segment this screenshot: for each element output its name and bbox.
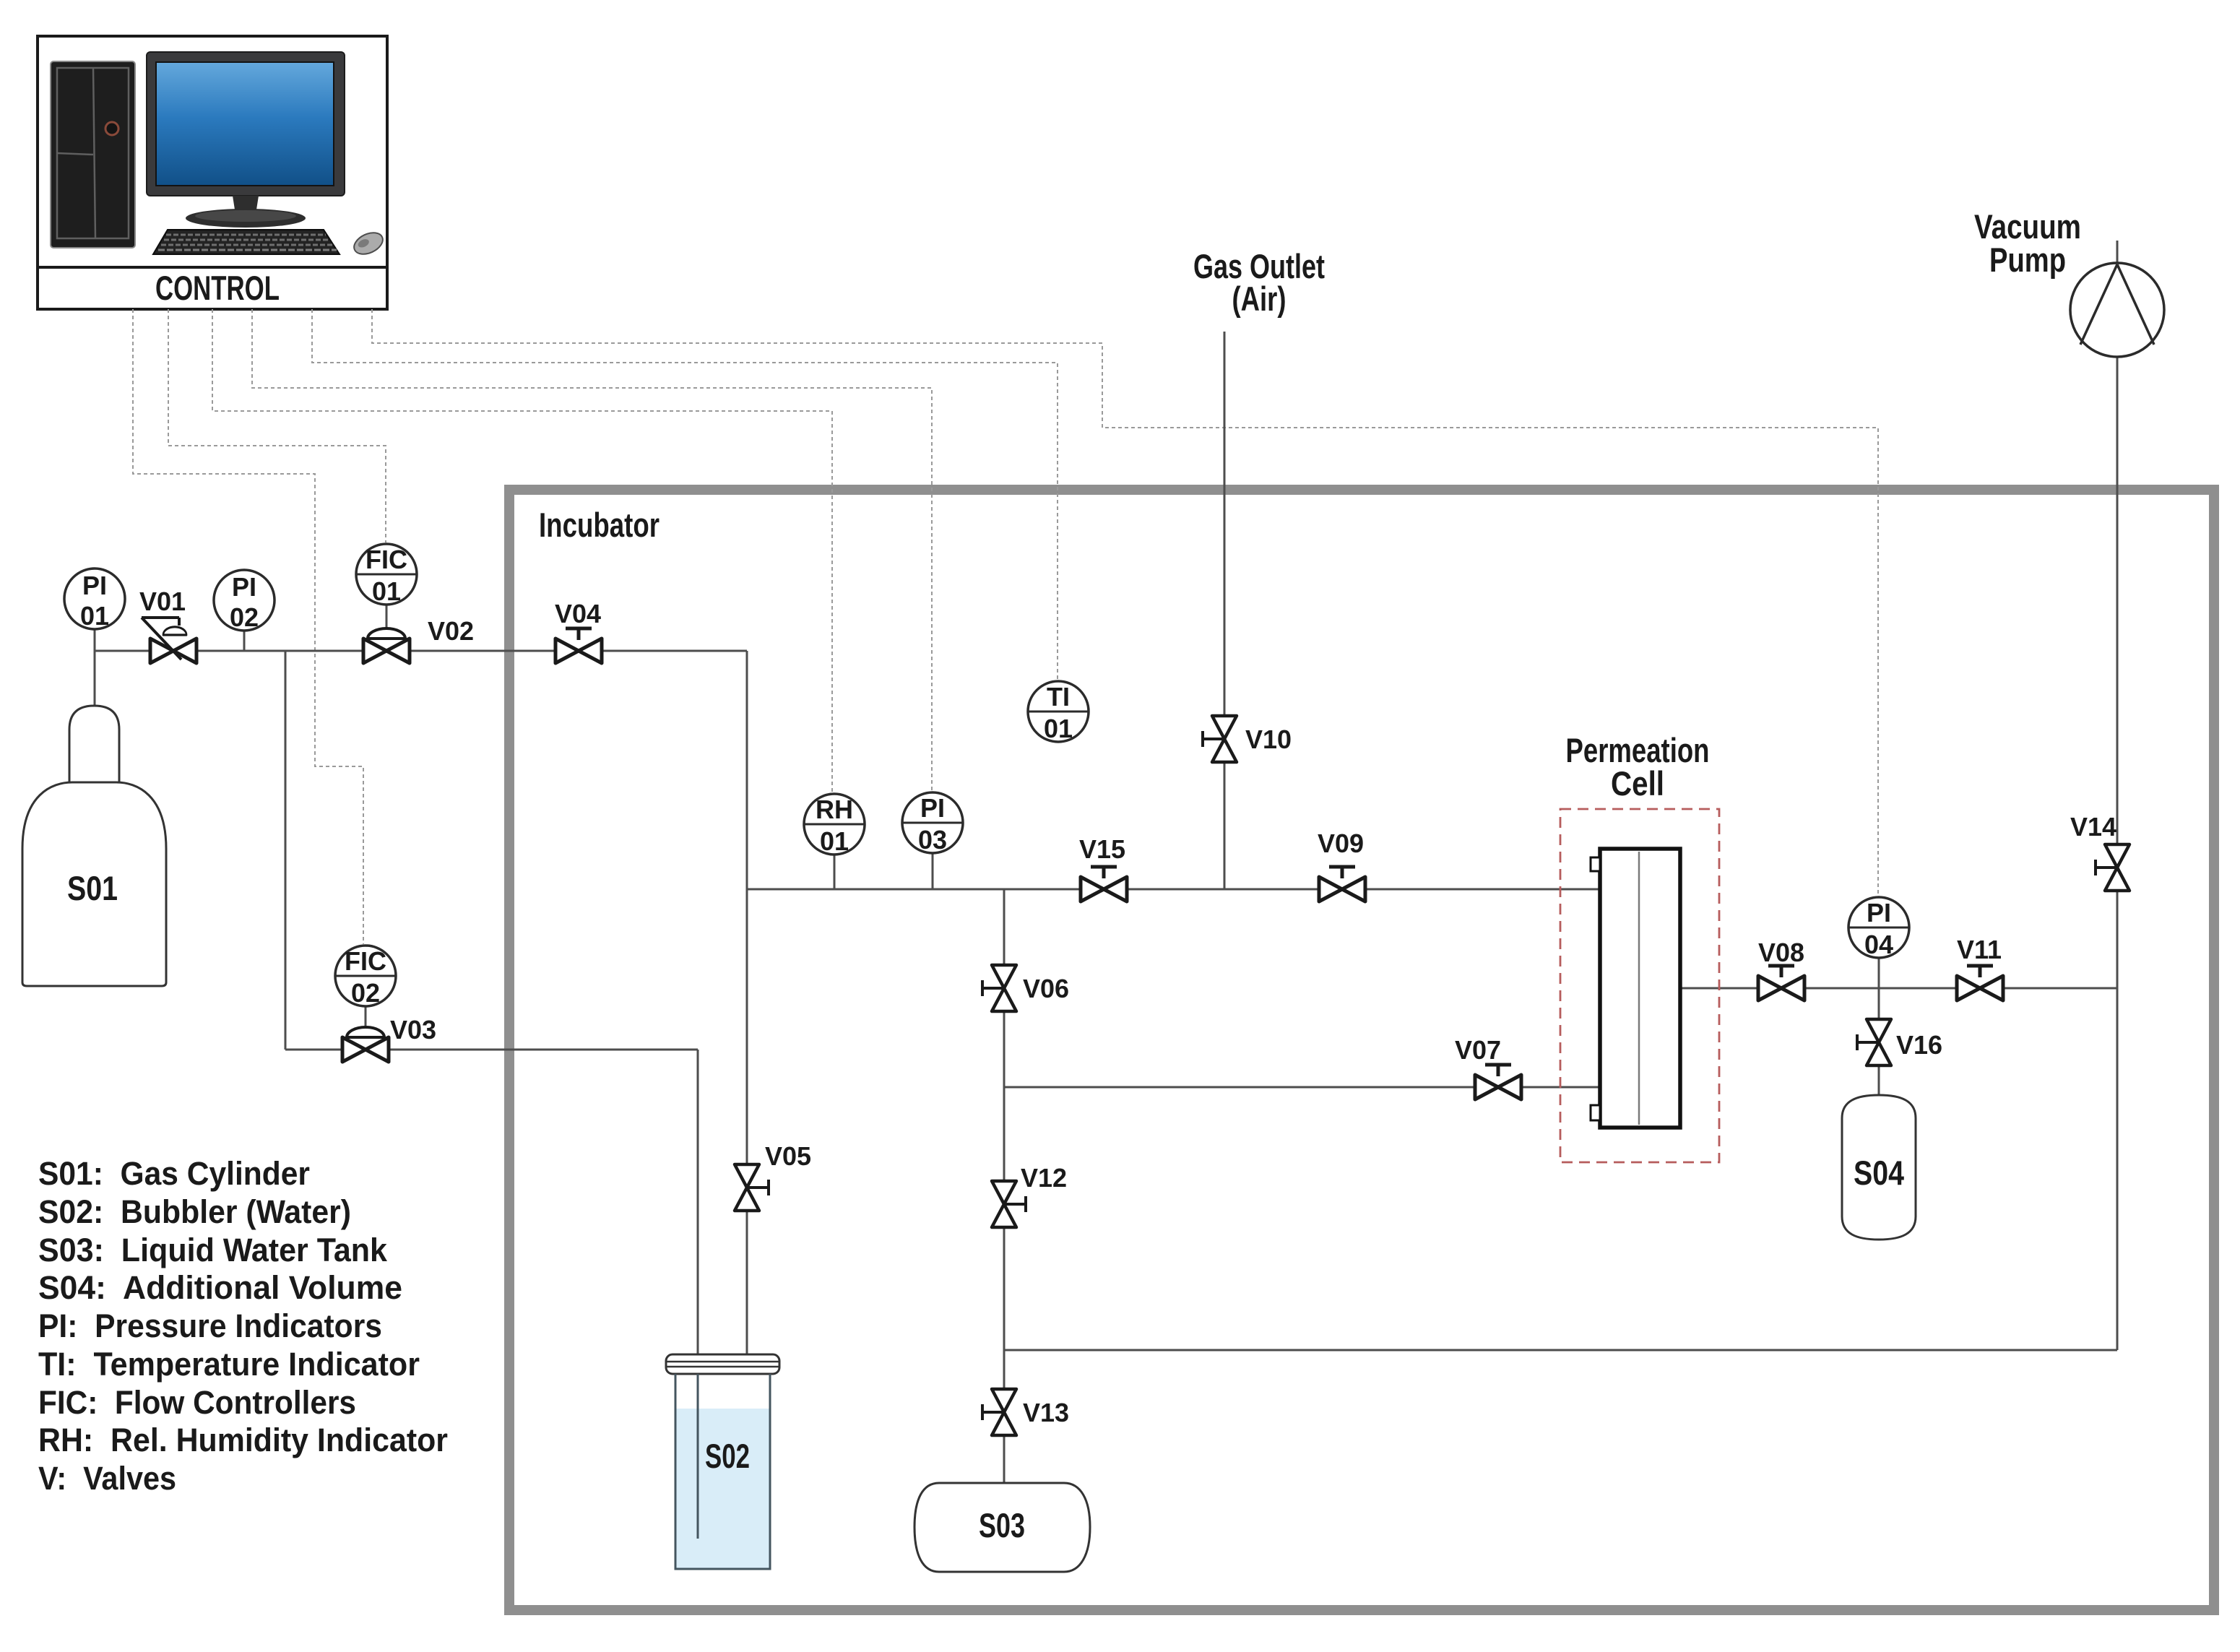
svg-text:01: 01: [80, 601, 109, 631]
legend: [38, 1155, 448, 1497]
svg-text:RH: RH: [816, 795, 853, 824]
permeation cell dashed boundary: [1560, 809, 1719, 1162]
svg-text:Cell: Cell: [1611, 764, 1664, 803]
pressure indicator PI02: [214, 570, 274, 632]
svg-text:V01: V01: [139, 587, 186, 616]
valve V12: [992, 1163, 1067, 1227]
wire main supply line: [95, 650, 747, 652]
permeation cell body: [1591, 849, 1680, 1128]
wire FIC02 to V03: [365, 1006, 367, 1037]
water tank S03: [914, 1483, 1090, 1572]
svg-text:S04: Additional Volume: S04: Additional Volume: [38, 1269, 402, 1306]
svg-text:S04: S04: [1854, 1154, 1904, 1192]
pressure indicator PI04: [1848, 897, 1909, 959]
temperature indicator TI01: [1028, 681, 1089, 743]
wire PI03 stem: [932, 853, 934, 889]
wire bottom line to vacuum: [1004, 1349, 2117, 1352]
control valve V02: [363, 616, 474, 663]
control valve V03: [342, 1015, 436, 1062]
svg-text:PI: PI: [232, 572, 256, 602]
svg-text:Pump: Pump: [1989, 241, 2066, 279]
svg-text:S03: Liquid Water Tank: S03: Liquid Water Tank: [38, 1232, 388, 1268]
svg-text:FIC: FIC: [345, 946, 386, 976]
svg-text:PI: PI: [82, 571, 107, 600]
monitor: [147, 52, 345, 228]
svg-text:V05: V05: [765, 1141, 811, 1171]
wire V04 line down to bubbler: [746, 651, 748, 1354]
control signal line to TI01: [312, 309, 1058, 680]
svg-text:01: 01: [1044, 714, 1073, 743]
valve V01 (regulator): [139, 587, 196, 663]
svg-text:CONTROL: CONTROL: [155, 269, 280, 307]
wire V16 to S04: [1878, 988, 1880, 1095]
wire incubator manifold: [747, 888, 1600, 891]
svg-text:TI: Temperature Indicator: TI: Temperature Indicator: [38, 1346, 420, 1383]
computer tower: [51, 61, 135, 248]
bubbler S02: [666, 1354, 779, 1569]
svg-text:02: 02: [230, 602, 259, 632]
valve V07: [1455, 1035, 1521, 1099]
valve V09: [1318, 829, 1365, 901]
svg-text:V10: V10: [1245, 725, 1292, 754]
svg-text:V: Valves: V: Valves: [38, 1460, 176, 1497]
wire V03 bypass line: [285, 1049, 698, 1051]
svg-text:(Air): (Air): [1232, 280, 1287, 318]
pressure indicator PI03: [902, 792, 963, 855]
wire branch down to V03 line: [285, 651, 287, 1050]
svg-text:V08: V08: [1758, 938, 1804, 967]
valve V08: [1758, 938, 1804, 1000]
svg-text:V12: V12: [1021, 1163, 1067, 1193]
humidity indicator RH01: [804, 794, 865, 856]
svg-text:02: 02: [351, 978, 380, 1008]
gas cylinder S01: [22, 706, 166, 986]
valve V06: [982, 965, 1069, 1011]
incubator enclosure: [509, 490, 2214, 1610]
wire vacuum line: [2116, 357, 2119, 1350]
wire branch V06-V12-V13 to S03: [1003, 889, 1006, 1483]
svg-text:01: 01: [820, 826, 849, 856]
wire PI02 stem: [243, 631, 246, 651]
wire permeate line V08-V11: [1680, 987, 2117, 990]
wire PI04 stem: [1878, 958, 1880, 988]
svg-text:V09: V09: [1318, 829, 1364, 858]
permeation cell label: [1566, 731, 1710, 803]
control box divider: [38, 266, 387, 269]
keyboard: [153, 230, 340, 254]
valve V13: [982, 1389, 1069, 1435]
control signal line to RH01: [212, 309, 832, 792]
svg-text:V03: V03: [390, 1015, 436, 1045]
svg-text:TI: TI: [1047, 682, 1070, 712]
svg-text:PI: Pressure Indicators: PI: Pressure Indicators: [38, 1307, 382, 1344]
valve V10: [1203, 716, 1292, 762]
valve V15: [1079, 834, 1127, 901]
svg-text:V16: V16: [1896, 1030, 1942, 1060]
valve V16: [1857, 1019, 1942, 1065]
svg-text:Incubator: Incubator: [539, 506, 660, 544]
svg-text:V02: V02: [428, 616, 474, 646]
svg-text:RH: Rel. Humidity Indicator: RH: Rel. Humidity Indicator: [38, 1422, 448, 1458]
flow controller FIC02: [335, 946, 396, 1008]
svg-text:V04: V04: [555, 599, 601, 628]
svg-text:S03: S03: [979, 1506, 1025, 1544]
mouse: [350, 228, 386, 258]
svg-text:V14: V14: [2070, 812, 2116, 842]
valve V14: [2070, 812, 2129, 891]
control signal line to FIC01: [168, 309, 386, 542]
svg-text:04: 04: [1864, 930, 1893, 959]
control signal line to PI04: [372, 309, 1878, 896]
control signal line to FIC02: [133, 309, 363, 944]
svg-text:V13: V13: [1023, 1398, 1069, 1427]
wire gas outlet line: [1224, 332, 1226, 889]
wire RH01 stem: [834, 855, 836, 889]
flow controller FIC01: [356, 544, 417, 606]
svg-text:V07: V07: [1455, 1035, 1501, 1065]
wire PI01 to cylinder S01: [94, 629, 96, 706]
svg-text:03: 03: [918, 825, 947, 855]
vacuum pump: [1974, 207, 2164, 357]
valve V11: [1957, 935, 2003, 1000]
svg-text:PI: PI: [920, 793, 945, 823]
control station box: [38, 36, 387, 309]
pressure indicator PI01: [64, 568, 125, 631]
wire bubbler dip tube: [697, 1050, 699, 1539]
wire vacuum pump stub: [2116, 241, 2119, 263]
valve V05: [735, 1141, 811, 1211]
wire V07 line to permeation cell: [1004, 1086, 1600, 1089]
svg-text:FIC: FIC: [366, 545, 407, 574]
svg-text:V11: V11: [1957, 935, 2002, 964]
svg-text:V15: V15: [1079, 834, 1125, 864]
additional volume S04: [1842, 1095, 1916, 1240]
svg-text:S01: Gas Cylinder: S01: Gas Cylinder: [38, 1155, 310, 1192]
svg-text:FIC: Flow Controllers: FIC: Flow Controllers: [38, 1384, 356, 1421]
valve V04: [555, 599, 602, 663]
svg-text:S01: S01: [67, 869, 118, 907]
svg-text:01: 01: [372, 576, 401, 606]
control signal line bundle: [133, 309, 1878, 944]
wire FIC01 to V02: [386, 605, 388, 639]
svg-text:S02: S02: [705, 1437, 750, 1475]
svg-text:V06: V06: [1023, 974, 1069, 1003]
svg-text:PI: PI: [1867, 898, 1891, 927]
control signal line to PI03: [252, 309, 932, 791]
gas outlet label: [1193, 247, 1325, 318]
svg-text:S02: Bubbler (Water): S02: Bubbler (Water): [38, 1193, 351, 1230]
